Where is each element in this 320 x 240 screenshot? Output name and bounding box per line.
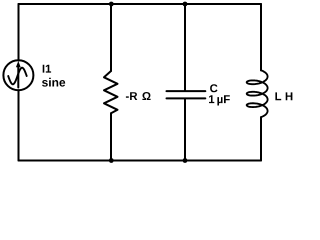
capacitor plate bottom bbox=[167, 97, 206, 99]
junction dot bottom resistor bbox=[109, 158, 114, 163]
label -R bbox=[126, 92, 137, 100]
label C bbox=[210, 84, 217, 92]
wire top bbox=[19, 3, 262, 5]
wire inductor top bbox=[260, 4, 262, 70]
resistor -R zigzag bbox=[104, 71, 118, 113]
label 1 bbox=[209, 95, 214, 103]
current source I1 circle bbox=[3, 60, 33, 90]
wire left upper bbox=[18, 4, 20, 60]
I1 arrowhead bbox=[16, 61, 21, 67]
wire left lower bbox=[18, 90, 20, 160]
wire resistor bottom bbox=[110, 113, 112, 160]
label H bbox=[286, 92, 293, 100]
inductor L coil bbox=[247, 70, 268, 117]
I1 sine wave bbox=[8, 68, 27, 85]
wire capacitor top bbox=[184, 4, 186, 90]
label uF bbox=[217, 95, 229, 105]
label L bbox=[275, 92, 281, 100]
wire inductor bottom bbox=[260, 117, 262, 160]
label sine bbox=[42, 78, 65, 87]
wire resistor top bbox=[110, 4, 112, 71]
wire capacitor bottom bbox=[184, 99, 186, 160]
junction dot top resistor bbox=[109, 2, 114, 7]
label ohm bbox=[142, 92, 150, 100]
junction dot top capacitor bbox=[183, 2, 188, 7]
junction dot bottom capacitor bbox=[183, 158, 188, 163]
capacitor plate top bbox=[167, 90, 206, 92]
label I1 bbox=[43, 65, 51, 73]
I1 arrow shaft bbox=[17, 65, 19, 88]
wire bottom bbox=[19, 160, 262, 162]
